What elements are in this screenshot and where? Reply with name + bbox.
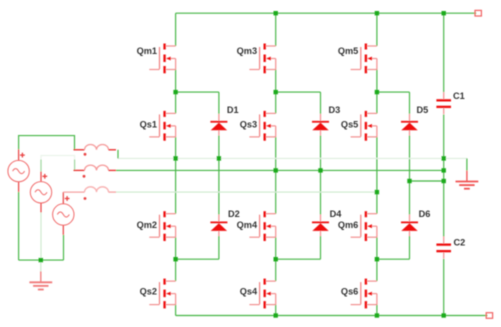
wire phase C line (faint) bbox=[116, 191, 377, 193]
ground right bbox=[456, 171, 479, 189]
ac source V1 bbox=[8, 149, 29, 192]
transistor Qm1 bbox=[137, 44, 176, 74]
node phase A / D-branch1 bbox=[217, 156, 221, 160]
diode D1 bbox=[210, 105, 238, 136]
wire source V2 top bbox=[41, 160, 75, 172]
transistor Qs2 bbox=[140, 279, 176, 309]
node phase B / cap midpoint bbox=[442, 168, 446, 172]
inductor L2 bbox=[74, 165, 117, 178]
wire capacitor branch bbox=[443, 13, 445, 315]
wire diode branch 3 vertical bbox=[409, 92, 411, 259]
inductor L1 bbox=[74, 145, 119, 159]
node leg3 Qm6-Qs6 node bbox=[375, 257, 379, 261]
node top rail / C1 branch bbox=[442, 11, 446, 15]
transistor Qm3 bbox=[237, 44, 276, 74]
node bottom rail / leg3 bbox=[375, 313, 379, 317]
node leg1 Qm1-Qs1 node bbox=[173, 90, 177, 94]
wire right ground stem bbox=[466, 158, 468, 170]
transistor Qm2 bbox=[137, 211, 176, 241]
diode D5 bbox=[401, 105, 428, 136]
svg-text:D5: D5 bbox=[417, 105, 429, 115]
wire neutral line (faint) bbox=[118, 157, 467, 159]
capacitor C1 bbox=[436, 91, 464, 114]
node phase C / leg3 bbox=[375, 190, 379, 194]
wire leg 1 vertical bbox=[175, 13, 177, 315]
node bottom rail / leg2 bbox=[274, 313, 278, 317]
wire mid link bottom leg 2 bbox=[276, 258, 321, 260]
transistor Qs5 bbox=[341, 111, 377, 141]
port top right bbox=[475, 10, 481, 16]
port bottom right bbox=[486, 313, 492, 319]
transistor Qs3 bbox=[240, 111, 276, 141]
wire source V2 bottom (faint) bbox=[40, 213, 42, 261]
svg-text:Qm6: Qm6 bbox=[338, 220, 358, 230]
wire source V3 bottom bbox=[63, 235, 65, 260]
wire source V1 top bbox=[19, 136, 75, 150]
node leg3 Qm5-Qs5 node bbox=[375, 90, 379, 94]
svg-text:Qm5: Qm5 bbox=[338, 46, 358, 56]
diode D6 bbox=[401, 209, 430, 236]
wire source V2 top faint bridge bbox=[41, 156, 75, 160]
inductor L3 bbox=[63, 187, 116, 200]
ac source V3 bbox=[53, 192, 74, 235]
node leg2 Qm3-Qs3 node bbox=[274, 90, 278, 94]
node source neutral / ground bbox=[39, 258, 43, 262]
node phase B / D-branch2 bbox=[318, 168, 322, 172]
diode D3 bbox=[312, 105, 340, 136]
wire mid link top leg 1 bbox=[176, 91, 219, 93]
node leg1 Qm2-Qs2 node bbox=[173, 257, 177, 261]
diode D2 bbox=[210, 209, 239, 236]
transistor Qm5 bbox=[338, 44, 377, 74]
svg-text:Qm2: Qm2 bbox=[137, 220, 157, 230]
wire neutral bottom bbox=[19, 259, 64, 261]
diode D4 bbox=[312, 209, 342, 236]
node bottom rail / C2 branch bbox=[442, 313, 446, 317]
node neutral / cap midpoint bbox=[442, 156, 446, 160]
wire leg 2 vertical bbox=[275, 13, 277, 315]
wire D-branch3 to midpoint bbox=[410, 180, 444, 182]
svg-text:Qs6: Qs6 bbox=[341, 286, 358, 296]
svg-text:D1: D1 bbox=[227, 105, 239, 115]
wire mid link top leg 3 bbox=[377, 91, 410, 93]
node top rail / leg2 bbox=[274, 11, 278, 15]
transistor Qs4 bbox=[240, 279, 276, 309]
node top rail / leg3 bbox=[375, 11, 379, 15]
wire mid link top leg 2 bbox=[276, 91, 321, 93]
svg-text:Qm1: Qm1 bbox=[137, 46, 157, 56]
svg-text:Qs3: Qs3 bbox=[240, 120, 257, 130]
wire leg 3 vertical bbox=[376, 13, 378, 315]
svg-text:C2: C2 bbox=[454, 237, 466, 247]
svg-text:Qm4: Qm4 bbox=[237, 220, 258, 230]
transistor Qs6 bbox=[341, 279, 377, 309]
transistor Qs1 bbox=[140, 111, 176, 141]
node leg2 Qm4-Qs4 node bbox=[274, 257, 278, 261]
wire bottom rail bbox=[176, 315, 488, 317]
node phase A / leg1 bbox=[173, 156, 177, 160]
wire source V1 bottom bbox=[18, 192, 20, 260]
svg-text:Qs1: Qs1 bbox=[140, 120, 157, 130]
svg-text:Qs4: Qs4 bbox=[240, 286, 258, 296]
wire top rail bbox=[176, 12, 477, 14]
svg-text:Qs2: Qs2 bbox=[140, 286, 157, 296]
ac source V2 bbox=[30, 172, 51, 213]
wire phase B line bbox=[116, 169, 444, 171]
capacitor C2 bbox=[436, 237, 465, 259]
wire diode branch 1 vertical bbox=[218, 92, 220, 259]
transistor Qm6 bbox=[338, 211, 377, 241]
transistor Qm4 bbox=[237, 211, 276, 241]
wire left ground stem (faint) bbox=[40, 260, 42, 272]
svg-text:D6: D6 bbox=[419, 209, 431, 219]
node phase B / leg2 bbox=[274, 168, 278, 172]
svg-text:D2: D2 bbox=[228, 209, 240, 219]
node midpoint link / cap branch bbox=[442, 179, 446, 183]
svg-text:D3: D3 bbox=[329, 105, 341, 115]
ground left bbox=[29, 271, 52, 289]
wire mid link bottom leg 1 bbox=[176, 258, 219, 260]
wire diode branch 2 vertical bbox=[320, 92, 322, 259]
node D-branch3 / midpoint link bbox=[407, 179, 411, 183]
svg-text:C1: C1 bbox=[453, 91, 465, 101]
svg-text:D4: D4 bbox=[330, 209, 343, 219]
svg-text:Qm3: Qm3 bbox=[237, 46, 257, 56]
svg-text:Qs5: Qs5 bbox=[341, 120, 358, 130]
wire mid link bottom leg 3 bbox=[377, 258, 410, 260]
